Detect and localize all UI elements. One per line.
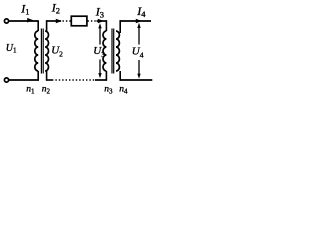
load box: [71, 16, 87, 26]
wire T1 left lead top: [37, 20, 39, 31]
transformer T2 winding n3: [103, 31, 106, 71]
current arrow I3: [98, 19, 104, 24]
wire T2 left lead top: [105, 20, 107, 31]
wire solid into T2: [97, 20, 108, 22]
current arrow I1: [27, 18, 33, 23]
wire T2 left lead bottom: [105, 71, 107, 81]
wire bottom middle solid into T2: [95, 79, 107, 81]
wire bottom-right: [120, 79, 153, 81]
transformer T1 primary winding n1: [35, 31, 38, 71]
wire top toward box (solid part): [46, 20, 61, 22]
wire T2 right lead top: [119, 20, 121, 33]
transformer T2 winding n4: [116, 31, 119, 71]
voltage arrow U3 down: [99, 60, 101, 75]
wire T2 right lead bottom: [119, 71, 121, 81]
terminal bottom-left: [4, 78, 8, 82]
terminal top-left: [4, 19, 8, 23]
wire T1 left lead bottom: [37, 71, 39, 81]
voltage arrow U4 down: [138, 60, 140, 75]
T2 core: [111, 29, 113, 74]
wire dotted to box: [63, 20, 72, 22]
current arrow I2: [56, 19, 62, 24]
wire T1 right lead bottom: [46, 71, 48, 81]
voltage arrow U3 up: [99, 28, 101, 45]
wire bottom middle solid near T1: [46, 79, 52, 81]
wire bottom middle dotted: [52, 79, 95, 81]
wire dotted from box: [88, 20, 97, 22]
wire top-left: [9, 20, 38, 22]
current arrow I4: [136, 19, 142, 24]
transformer T1 secondary winding n2: [45, 31, 48, 71]
wire bottom-left: [9, 79, 39, 81]
voltage arrow U4 up: [138, 27, 140, 45]
T1 core: [40, 29, 42, 74]
wire T1 right lead top: [46, 20, 48, 31]
wire top-right: [120, 20, 152, 22]
